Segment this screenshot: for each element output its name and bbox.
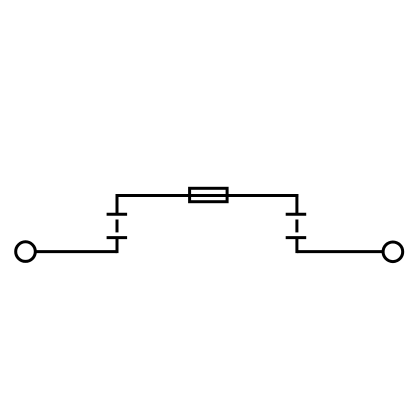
terminal circle right: [383, 242, 403, 262]
wire right bottom horizontal: [297, 250, 383, 253]
disconnect tick right upper: [286, 213, 307, 216]
wire top horizontal: [116, 194, 299, 197]
fuse F: [190, 188, 228, 201]
wire left riser upper: [116, 194, 119, 214]
disconnect tick left lower: [107, 236, 128, 239]
wire left riser lower: [116, 238, 119, 254]
wire right riser upper: [295, 194, 298, 214]
terminal circle left: [16, 242, 36, 262]
disconnect dash left: [116, 220, 119, 233]
wire left bottom horizontal: [35, 250, 117, 253]
disconnect dash right: [295, 220, 298, 233]
disconnect tick left upper: [107, 213, 128, 216]
disconnect tick right lower: [286, 236, 307, 239]
wire right riser lower: [295, 238, 298, 254]
